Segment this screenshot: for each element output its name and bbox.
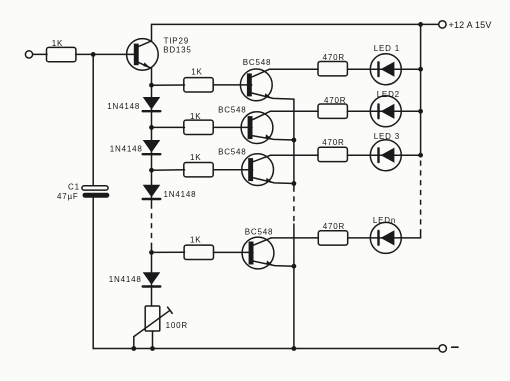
wire [76, 53, 134, 55]
svg-text:1N4148: 1N4148 [109, 275, 142, 284]
svg-text:1N4148: 1N4148 [110, 144, 143, 153]
svg-text:LEDn: LEDn [373, 216, 396, 225]
svg-text:BC548: BC548 [245, 228, 273, 237]
svg-text:100R: 100R [166, 321, 188, 330]
svg-text:1N4148: 1N4148 [107, 102, 140, 111]
wire diode chain [151, 85, 153, 203]
svg-text:+12 A 15V: +12 A 15V [449, 20, 492, 30]
wire [348, 237, 371, 239]
junction dot [149, 250, 154, 255]
diode D3 1N4148 [143, 185, 161, 199]
transistor Q4 BC548 [242, 237, 294, 269]
wire [348, 154, 371, 156]
resistor R9 470R [318, 231, 347, 245]
resistor R7 470R [318, 147, 347, 161]
junction dot [149, 168, 154, 173]
svg-text:1K: 1K [52, 39, 63, 48]
junction dot [131, 346, 136, 351]
junction dot [292, 346, 297, 351]
wire dashed [151, 204, 153, 244]
wire [401, 110, 420, 112]
junction dot [91, 52, 96, 57]
svg-text:47µF: 47µF [57, 192, 79, 201]
junction dot [292, 181, 297, 186]
svg-text:LED2: LED2 [377, 90, 400, 99]
LED2 [370, 96, 401, 127]
junction dot [418, 22, 423, 27]
svg-text:470R: 470R [323, 53, 345, 62]
transistor Q2 BC548 [241, 111, 294, 143]
junction dot [418, 153, 423, 158]
svg-text:BC548: BC548 [243, 58, 271, 67]
svg-text:1K: 1K [190, 236, 201, 245]
resistor R6 1K [184, 163, 213, 177]
wire [151, 244, 153, 307]
svg-text:470R: 470R [324, 96, 346, 105]
svg-text:LED 1: LED 1 [374, 44, 400, 53]
junction dot [292, 264, 297, 269]
wire [151, 24, 153, 41]
junction dot [292, 138, 297, 143]
svg-text:470R: 470R [323, 222, 345, 231]
svg-text:BC548: BC548 [218, 105, 246, 114]
wire [151, 68, 153, 85]
svg-text:C1: C1 [68, 183, 80, 192]
wire [271, 237, 318, 239]
diode D4 1N4148 [143, 272, 161, 286]
diode D1 1N4148 [143, 97, 161, 111]
potentiometer P1 100R [134, 306, 172, 337]
wire dashed [420, 161, 422, 234]
wire [213, 169, 252, 171]
transistor Q0 TIP29 BD135 [127, 39, 159, 71]
wire bottom rail [93, 348, 439, 350]
LED3 [370, 140, 401, 171]
resistor R5 470R [318, 104, 347, 118]
junction dot [149, 125, 154, 130]
resistor R4 1K [184, 120, 213, 134]
node dot [149, 83, 154, 88]
label minus [452, 346, 458, 348]
wire [420, 233, 422, 238]
wire emitter bus [293, 99, 295, 186]
junction dot [418, 67, 423, 72]
wire [152, 169, 185, 171]
wire [401, 237, 420, 239]
wire [213, 126, 252, 128]
wire [271, 154, 318, 156]
diode D2 1N4148 [143, 140, 161, 154]
wire [92, 198, 94, 349]
wire [152, 126, 185, 128]
LED1 [370, 54, 401, 85]
svg-text:1N4148: 1N4148 [164, 190, 197, 199]
svg-text:1K: 1K [190, 112, 201, 121]
wire [270, 110, 318, 112]
wire dashed [293, 187, 295, 225]
svg-text:470R: 470R [322, 138, 344, 147]
terminal minus [439, 345, 446, 352]
wire [133, 337, 135, 349]
svg-text:TIP29: TIP29 [164, 36, 189, 45]
terminal +12V [439, 21, 446, 28]
svg-text:BC548: BC548 [218, 148, 246, 157]
junction dot [418, 109, 423, 114]
transistor Q1 BC548 [240, 69, 294, 101]
wire [348, 110, 371, 112]
svg-text:BD135: BD135 [163, 46, 191, 55]
wire [33, 53, 47, 55]
resistor R3 470R [318, 61, 347, 75]
wire [152, 251, 185, 253]
wire [152, 84, 185, 86]
wire top +V rail [152, 23, 439, 25]
wire [214, 251, 254, 253]
resistor R8 1K [184, 245, 213, 259]
wire [348, 68, 371, 70]
wire [152, 331, 154, 349]
svg-text:1K: 1K [191, 67, 202, 76]
svg-text:1K: 1K [190, 153, 201, 162]
wire [270, 68, 319, 70]
wire [213, 84, 252, 86]
wire +V rail vertical [420, 24, 422, 155]
wire [293, 224, 295, 349]
transistor Q3 BC548 [242, 154, 294, 186]
wire [401, 154, 420, 156]
wire [401, 68, 420, 70]
junction dot [150, 346, 155, 351]
input terminal J1 [25, 51, 32, 58]
capacitor C1 [82, 186, 109, 198]
resistor R2 1K [184, 78, 213, 92]
LEDn [370, 222, 401, 253]
wire [92, 54, 94, 185]
resistor R1 1K [47, 47, 76, 61]
svg-text:LED 3: LED 3 [374, 132, 400, 141]
